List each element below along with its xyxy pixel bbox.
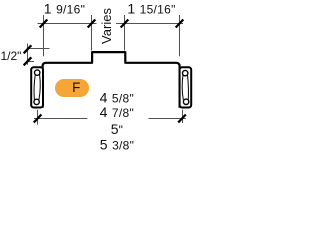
svg-text:1 15/16": 1 15/16"	[127, 0, 175, 16]
dimension 1/2 bottom tick	[24, 57, 32, 65]
svg-text:5 3/8": 5 3/8"	[100, 137, 134, 153]
bottom left extension line	[37, 110, 39, 125]
dimension 1 9/16 right tick	[88, 20, 96, 28]
frame head profile outline	[43, 52, 180, 108]
svg-text:1/2": 1/2"	[1, 49, 22, 63]
bottom right dimension line	[149, 118, 186, 120]
dimension 1/2 bottom extension line	[28, 61, 35, 63]
dimension 1/2 vertical line	[27, 44, 29, 65]
dimension 1 15/16 left tick	[121, 20, 129, 28]
dimension 1 15/16 right extension line	[179, 15, 181, 56]
dimension 1/2 top tick	[24, 45, 32, 53]
right weatherseal top roller	[183, 70, 188, 75]
svg-text:4 5/8": 4 5/8"	[100, 90, 134, 106]
dimension 1 9/16 right extension line	[91, 15, 93, 51]
svg-text:F: F	[72, 80, 80, 95]
svg-text:Varies: Varies	[99, 8, 114, 44]
svg-text:5": 5"	[111, 121, 123, 137]
right weatherseal body	[180, 67, 192, 107]
right weatherseal bottom roller	[183, 99, 188, 104]
dimension 1 15/16 line	[116, 23, 183, 25]
bottom left tick	[34, 115, 42, 123]
callout F pill	[55, 79, 89, 97]
left weatherseal right arc	[39, 74, 40, 100]
svg-text:1 9/16": 1 9/16"	[44, 0, 85, 16]
left weatherseal body	[31, 67, 43, 107]
right weatherseal right arc	[187, 75, 190, 100]
left weatherseal left arc	[34, 75, 35, 100]
dimension 1 15/16 right tick	[176, 20, 184, 28]
dimension 1/2 top extension line	[28, 48, 50, 50]
svg-text:4 7/8": 4 7/8"	[100, 104, 134, 120]
dimension 1 15/16 left extension line	[124, 15, 126, 51]
dimension 1 9/16 line	[38, 23, 97, 25]
bottom left dimension line	[34, 118, 87, 120]
bottom right tick	[178, 115, 186, 123]
dimension 1 9/16 left extension line	[43, 15, 45, 56]
bottom right extension line	[182, 110, 184, 123]
dimension 1 9/16 left tick	[40, 20, 48, 28]
left weatherseal top roller	[35, 70, 40, 75]
left weatherseal bottom roller	[34, 99, 39, 104]
right weatherseal left arc	[182, 75, 183, 100]
